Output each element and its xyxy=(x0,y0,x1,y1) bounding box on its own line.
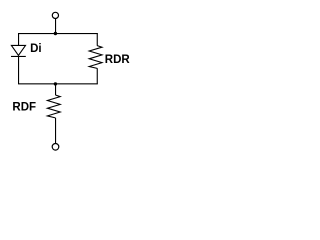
wire (top rail) xyxy=(18,33,98,34)
diode Di (triangle) xyxy=(11,45,25,55)
terminal T2 (bottom port circle) xyxy=(52,144,59,151)
resistor RDR xyxy=(89,46,102,69)
node bottom junction xyxy=(54,82,57,85)
node top junction xyxy=(54,32,57,35)
diode Di (cathode bar) xyxy=(11,56,26,57)
terminal T1 (top port circle) xyxy=(52,12,58,18)
svg-text:RDF: RDF xyxy=(12,102,36,114)
svg-text:Di: Di xyxy=(30,43,41,55)
wire (RDR bottom to bottom rail) xyxy=(97,68,98,84)
wire (top terminal to top rail) xyxy=(55,19,56,34)
resistor RDF xyxy=(47,95,60,118)
wire (left branch, rail to diode anode) xyxy=(18,33,19,46)
wire (diode cathode to bottom rail) xyxy=(18,57,19,85)
wire (RDF bottom to bottom terminal) xyxy=(55,118,56,144)
wire (right branch, rail to RDR top) xyxy=(97,33,98,46)
wire (bottom rail) xyxy=(18,83,98,84)
svg-text:RDR: RDR xyxy=(105,54,131,66)
wire (bottom junction to RDF top) xyxy=(55,84,56,96)
